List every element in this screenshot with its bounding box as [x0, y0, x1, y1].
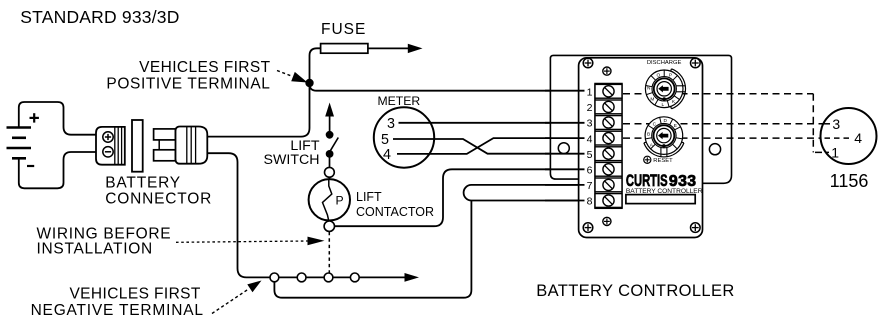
- svg-text:1: 1: [831, 144, 839, 160]
- panel corner screw top left: [583, 58, 593, 68]
- svg-text:1156: 1156: [830, 171, 869, 191]
- svg-text:7: 7: [587, 180, 593, 192]
- terminal strip outline: [595, 84, 622, 209]
- lift switch lower contact: [326, 150, 334, 158]
- wire contactor to terminal 6: [335, 169, 585, 226]
- svg-text:CURTIS: CURTIS: [626, 171, 668, 190]
- battery plus label: [30, 113, 39, 122]
- svg-text:DISCHARGE: DISCHARGE: [647, 60, 682, 66]
- ground bus wire with arrow: [270, 276, 405, 278]
- battery connector receptacle body: [96, 127, 125, 165]
- svg-text:E: E: [674, 123, 677, 129]
- wire meter 5 to terminal 5: [393, 139, 585, 154]
- panel inner screw bottom: [603, 217, 611, 225]
- svg-text:8: 8: [587, 196, 593, 208]
- panel label rectangle: [626, 195, 695, 204]
- svg-text:P: P: [336, 194, 344, 208]
- back plate left mounting hole: [558, 143, 569, 154]
- wire junction to terminal 1: [310, 84, 585, 91]
- lamp stub 1: [815, 151, 829, 153]
- wire terminal to contactor: [328, 177, 330, 180]
- bus terminal circle 2: [297, 273, 306, 282]
- svg-text:B: B: [647, 131, 650, 137]
- lift switch upper contact: [326, 131, 334, 139]
- dashed pointer positive terminal: [277, 71, 292, 77]
- wire hairpin terminal 7 and 8: [464, 185, 585, 201]
- svg-text:N: N: [647, 85, 651, 91]
- contactor top terminal circle: [325, 167, 335, 177]
- wire battery positive loop: [19, 102, 96, 135]
- svg-text:4: 4: [383, 147, 391, 163]
- svg-text:C: C: [653, 121, 657, 127]
- terminal cells and screws: [587, 84, 622, 207]
- svg-text:3: 3: [587, 118, 593, 130]
- lamp 1156 circle: [821, 108, 877, 164]
- panel corner screw bottom right: [691, 223, 701, 233]
- panel corner screw top right: [691, 58, 701, 68]
- svg-text:VEHICLES FIRST: VEHICLES FIRST: [69, 286, 200, 303]
- node junction dot: [305, 79, 313, 87]
- svg-text:M: M: [650, 97, 654, 103]
- wire plug positive to fuse riser: [207, 48, 320, 136]
- wire meter 4 to terminal 4: [397, 138, 585, 154]
- plug upper prong: [154, 129, 176, 140]
- dashed pointer negative terminal: [212, 289, 249, 314]
- svg-text:2: 2: [587, 102, 593, 114]
- svg-text:P: P: [669, 73, 672, 79]
- battery controller back plate: [550, 55, 731, 183]
- svg-text:6: 6: [587, 165, 593, 177]
- battery minus label: [27, 165, 34, 167]
- contactor coil zigzag: [323, 179, 332, 220]
- panel inner screw top: [603, 67, 611, 75]
- dial U2 reset rotary switch: [644, 117, 684, 157]
- plug ridge lines: [187, 127, 196, 164]
- svg-text:O: O: [657, 72, 661, 78]
- wire switch to contactor top circle: [329, 157, 331, 168]
- svg-text:3: 3: [832, 116, 840, 132]
- dashed wire terminal 4 to lamp: [623, 137, 851, 139]
- wire plug negative down: [207, 153, 270, 277]
- bus terminal circle 1: [270, 273, 279, 282]
- wire battery negative loop: [19, 152, 96, 188]
- svg-text:NEGATIVE TERMINAL: NEGATIVE TERMINAL: [31, 302, 204, 319]
- svg-text:BATTERY CONTROLLER: BATTERY CONTROLLER: [626, 188, 703, 195]
- svg-text:5: 5: [587, 149, 593, 161]
- svg-text:3: 3: [387, 116, 395, 132]
- svg-text:CONTACTOR: CONTACTOR: [356, 205, 434, 219]
- svg-text:5: 5: [381, 132, 389, 148]
- battery B1 plates: [7, 128, 32, 159]
- svg-text:LIFT: LIFT: [356, 190, 382, 204]
- svg-text:D: D: [664, 118, 668, 124]
- svg-text:FUSE: FUSE: [321, 21, 366, 38]
- bus terminal circle 3: [324, 273, 333, 282]
- connector mating flange: [132, 120, 143, 172]
- plug lower prong: [154, 150, 176, 161]
- lift switch arrow: [329, 114, 331, 133]
- lamp stub 3: [824, 123, 831, 125]
- bus terminal circle 4: [350, 273, 359, 282]
- controller front panel: [579, 58, 703, 238]
- svg-text:RESET: RESET: [653, 158, 673, 164]
- svg-text:STANDARD 933/3D: STANDARD 933/3D: [20, 7, 179, 27]
- svg-text:4: 4: [854, 130, 862, 146]
- svg-text:CONNECTOR: CONNECTOR: [105, 191, 212, 208]
- connector ridge lines: [115, 127, 122, 165]
- dotted pointer wiring before installation: [176, 241, 308, 242]
- reset screw symbol: [644, 156, 651, 163]
- svg-text:VEHICLES FIRST: VEHICLES FIRST: [139, 59, 270, 76]
- panel corner screw bottom left: [583, 223, 593, 233]
- dashed wire terminal 3 to lamp: [623, 123, 829, 125]
- plug prong web: [158, 140, 160, 150]
- svg-text:BATTERY CONTROLLER: BATTERY CONTROLLER: [536, 282, 734, 300]
- wire meter 3 to terminal 3: [399, 122, 585, 124]
- svg-text:BATTERY: BATTERY: [105, 175, 181, 192]
- svg-text:1: 1: [587, 87, 593, 99]
- dial U1 discharge rotary switch: [645, 69, 685, 109]
- contactor bottom terminal circle: [324, 221, 334, 231]
- back plate right mounting hole: [709, 144, 720, 155]
- lamp stub 4: [825, 137, 853, 139]
- svg-text:POSITIVE TERMINAL: POSITIVE TERMINAL: [106, 75, 270, 92]
- wire fuse output: [368, 47, 411, 49]
- dashed wire terminal 1 to lamp: [623, 94, 813, 153]
- connector plus terminal: [103, 132, 113, 142]
- wire stubs over panel rows 1 3 4 5 6 7 8: [545, 91, 585, 201]
- svg-text:L: L: [662, 102, 665, 108]
- svg-text:SWITCH: SWITCH: [264, 152, 320, 168]
- svg-text:METER: METER: [378, 94, 421, 108]
- connector minus terminal: [103, 147, 113, 157]
- plug body: [176, 127, 208, 164]
- svg-text:4: 4: [587, 133, 593, 145]
- lift contactor coil circle: [309, 179, 350, 220]
- svg-text:INSTALLATION: INSTALLATION: [37, 241, 153, 258]
- lift switch blade: [330, 138, 338, 151]
- wire bus loop to terminals 7 8: [274, 201, 471, 298]
- dashed wire contactor to ground bus: [328, 232, 330, 273]
